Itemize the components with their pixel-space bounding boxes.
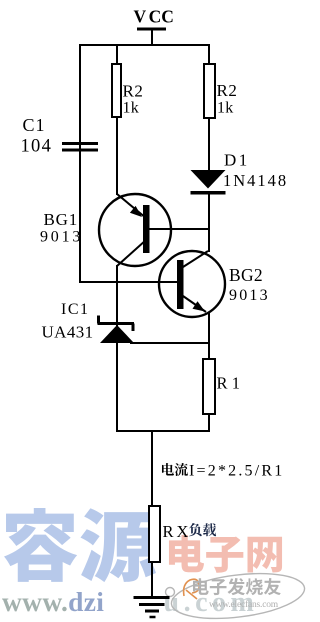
wire top rail — [79, 44, 210, 46]
svg-text:1k: 1k — [217, 100, 233, 117]
wire right branch R1 to bottom rail — [208, 414, 210, 432]
watermark 电子发烧友 — [193, 578, 281, 595]
wire RX to ground — [151, 562, 153, 598]
VCC bar — [137, 28, 166, 31]
svg-text:BG1: BG1 — [44, 210, 79, 229]
resistor RX body — [149, 506, 160, 562]
label current formula 电流 — [162, 463, 188, 476]
IC1 UA431 zener cathode bar — [98, 316, 135, 332]
wire BG1 base to right branch — [171, 228, 210, 230]
watermark 容源 — [4, 508, 156, 582]
wire left branch — [79, 44, 81, 283]
wire right branch BG2 emitter to R1 — [208, 313, 210, 359]
svg-text:9013: 9013 — [229, 287, 270, 304]
svg-text:www.dzi: www.dzi — [2, 586, 104, 617]
transistor BG1 base bar — [143, 205, 150, 253]
transistor BG1 circle — [99, 194, 171, 266]
transistor BG1 collector — [117, 240, 146, 266]
transistor BG1 emitter arrow — [130, 206, 142, 217]
transistor BG1 emitter — [117, 194, 146, 218]
svg-text:104: 104 — [21, 137, 53, 157]
wire BG2 base line — [79, 281, 178, 283]
svg-text:IC1: IC1 — [61, 301, 90, 318]
resistor R1 body — [203, 359, 215, 414]
svg-text:R2: R2 — [217, 81, 238, 100]
svg-text:D1: D1 — [224, 151, 250, 170]
capacitor C1 plates — [62, 144, 98, 151]
svg-text:RX: RX — [163, 522, 192, 541]
wire right branch upper — [208, 44, 210, 64]
svg-text:1N4148: 1N4148 — [223, 171, 288, 190]
transistor BG2 emitter arrow — [193, 301, 206, 311]
svg-text:R2: R2 — [123, 82, 144, 101]
svg-text:UA431: UA431 — [42, 323, 94, 342]
wire mid branch R2 to BG1 — [116, 117, 118, 195]
wire right branch D1 to BG2 collector — [208, 193, 210, 252]
label 负载 — [189, 523, 216, 536]
svg-text:VCC: VCC — [134, 7, 174, 27]
watermark elecfans logo — [184, 579, 200, 599]
watermark doodle ellipse — [166, 567, 308, 622]
IC1 UA431 triangle — [100, 325, 134, 343]
wire bottom stub — [151, 430, 153, 506]
watermark 电子网 — [169, 535, 282, 573]
resistor R2 right body — [204, 64, 215, 118]
svg-text:9013: 9013 — [40, 229, 83, 246]
svg-text:C1: C1 — [23, 115, 46, 135]
transistor BG2 circle — [159, 251, 225, 317]
svg-text:www.elecfans.com: www.elecfans.com — [209, 599, 279, 610]
transistor BG2 emitter — [183, 296, 206, 312]
diode D1 — [191, 170, 226, 193]
resistor R2 left body — [112, 64, 121, 117]
svg-text:1k: 1k — [123, 100, 139, 117]
transistor BG1 base lead — [149, 228, 172, 230]
svg-text:I=2*2.5/R1: I=2*2.5/R1 — [189, 463, 284, 480]
transistor BG2 collector — [183, 251, 208, 267]
wire VCC stub — [151, 29, 153, 44]
wire mid branch upper — [116, 44, 118, 64]
svg-text:R1: R1 — [217, 374, 245, 393]
wire bottom rail — [116, 430, 210, 432]
ground — [134, 598, 170, 618]
wire UA431 to right branch — [130, 342, 210, 344]
transistor BG2 base bar — [177, 260, 184, 309]
wire mid branch BG1 collector down — [116, 265, 118, 431]
svg-text:BG2: BG2 — [229, 265, 263, 285]
wire right branch R2 to D1 — [208, 118, 210, 171]
